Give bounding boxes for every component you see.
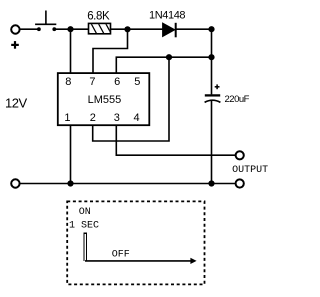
svg-text:OFF: OFF: [112, 249, 130, 260]
svg-text:6: 6: [114, 76, 120, 88]
svg-text:1N4148: 1N4148: [149, 10, 185, 22]
node D: junction on pin 6 rail: [208, 54, 214, 60]
svg-text:4: 4: [134, 112, 140, 124]
wire: node B to diode anode: [128, 28, 163, 30]
svg-text:7: 7: [89, 76, 95, 88]
node G: capacitor junction on ground rail: [208, 180, 214, 186]
diode D1 1N4148: [163, 23, 176, 38]
wire: capacitor negative plate down to ground rail: [211, 101, 213, 184]
node B: junction resistor/diode/pin7: [124, 26, 130, 32]
svg-text:2: 2: [90, 112, 96, 124]
node A: Vcc junction at pin 8 riser: [67, 26, 73, 32]
node E: junction pin6 rail / pin2 branch: [166, 54, 172, 60]
svg-text:LM555: LM555: [88, 94, 122, 106]
svg-text:220uF: 220uF: [225, 94, 250, 105]
timing diagram dashed frame: [67, 201, 204, 284]
wire: ground rail: [20, 183, 236, 185]
push-button switch S1: [35, 11, 56, 32]
wire: pin 6 riser and rail to node D: [116, 57, 211, 73]
wire: resistor right lead to node B: [111, 28, 128, 30]
svg-text:5: 5: [134, 76, 140, 88]
wire: switch to node A: [54, 28, 70, 30]
label: plus polarity mark: [11, 41, 19, 49]
svg-text:1 SEC: 1 SEC: [69, 221, 99, 232]
capacitor C1 220uF electrolytic: [205, 95, 221, 102]
wire: terminal to switch contact: [20, 28, 39, 30]
terminal: ground-side output return: [236, 179, 244, 187]
node C: junction diode cathode / capacitor rail: [208, 26, 214, 32]
IC U1 LM555 body: [58, 73, 150, 125]
terminal: +12V positive input: [11, 25, 19, 33]
node F: pin 1 junction on ground rail: [67, 180, 73, 186]
wire: node A to resistor left lead: [71, 28, 89, 30]
wire: node A down to pin 8: [70, 29, 72, 73]
wire: pin 3 down and right to output terminal: [116, 125, 235, 155]
svg-text:6.8K: 6.8K: [87, 11, 110, 23]
svg-text:ON: ON: [79, 207, 91, 218]
svg-text:8: 8: [65, 76, 71, 88]
wire: node E down then left to pin 2: [93, 57, 169, 141]
wire: diode cathode to node C: [177, 28, 212, 30]
terminal: ground-side input: [11, 179, 19, 187]
timing baseline with arrow: [85, 258, 197, 264]
terminal: OUTPUT: [236, 151, 244, 159]
svg-text:1: 1: [64, 112, 70, 124]
svg-text:OUTPUT: OUTPUT: [232, 165, 268, 176]
wire: pin 1 down to ground rail: [70, 125, 72, 183]
wire: node B down, left, to pin 7 riser: [93, 29, 128, 73]
resistor R1 6.8K (hatched box): [83, 23, 111, 35]
label: capacitor plus polarity: [215, 84, 220, 89]
svg-text:12V: 12V: [5, 95, 27, 110]
wire: node C down to capacitor positive plate: [211, 29, 213, 94]
svg-text:3: 3: [114, 112, 120, 124]
timing pulse: narrow 1 second pulse: [83, 233, 87, 261]
